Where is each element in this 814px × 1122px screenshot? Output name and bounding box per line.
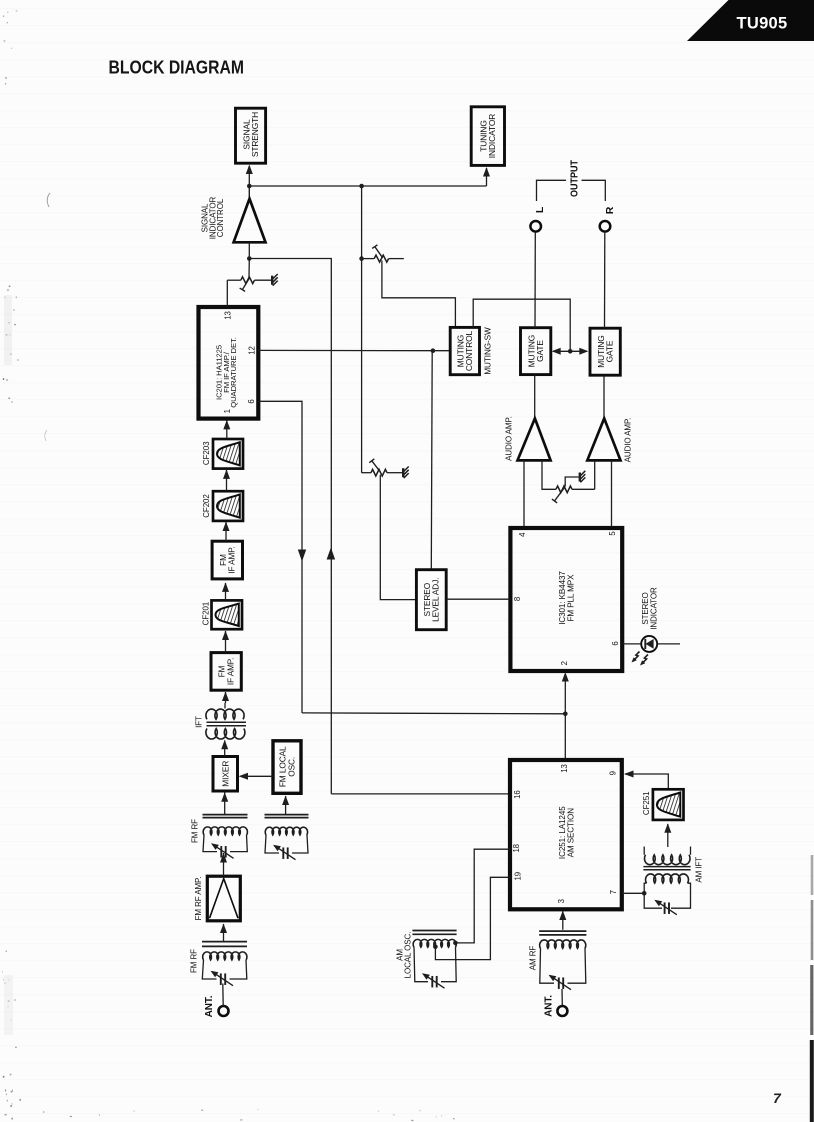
potentiometer audio balance bbox=[542, 460, 595, 503]
wire IC251 pin 7 to AM IFT bbox=[622, 892, 644, 894]
svg-text:9: 9 bbox=[609, 771, 618, 775]
wire/arrow FM IF AMP 1 to CF201 bbox=[222, 631, 229, 653]
IC251 LA1245 AM SECTION block bbox=[510, 760, 622, 909]
wire branch down from tuning line (x361.5) bbox=[361, 186, 363, 473]
wire/arrow FM RF tank to FM RF AMP bbox=[220, 924, 227, 942]
svg-text:OUTPUT: OUTPUT bbox=[570, 160, 581, 197]
wire muting pot wiper to MUTING CONTROL bbox=[382, 261, 456, 328]
wire IC201 pin 6 to AM bus bbox=[258, 401, 302, 713]
node junction between muting gates bbox=[568, 349, 573, 354]
signal strength meter block bbox=[236, 108, 266, 163]
svg-text:ANT.: ANT. bbox=[544, 995, 555, 1017]
wire junction down to level pot bbox=[248, 259, 250, 278]
svg-text:FM RF AMP.: FM RF AMP. bbox=[194, 877, 203, 921]
page number 7 bbox=[773, 1090, 782, 1106]
svg-text:INDICATOR: INDICATOR bbox=[650, 587, 659, 630]
svg-text:12: 12 bbox=[247, 346, 256, 354]
wire/arrows gate control double arrow bbox=[552, 348, 589, 355]
amplifier FM RF AMP. bbox=[194, 876, 240, 921]
title BLOCK DIAGRAM bbox=[109, 57, 245, 78]
antenna terminal ANT. (FM) bbox=[204, 995, 228, 1017]
svg-text:7: 7 bbox=[773, 1090, 782, 1106]
wire/arrow to SIGNAL STRENGTH bbox=[246, 165, 253, 187]
svg-text:AM SECTION: AM SECTION bbox=[567, 808, 576, 858]
svg-text:6: 6 bbox=[247, 399, 256, 403]
node junction AM LO mid tap bbox=[433, 945, 438, 950]
svg-text:13: 13 bbox=[224, 311, 233, 319]
wire ANT to FM RF tank bbox=[222, 984, 224, 1006]
node junction pin7 on AM IFT tank bbox=[642, 891, 647, 896]
svg-text:16: 16 bbox=[513, 790, 522, 798]
svg-text:CF201: CF201 bbox=[202, 601, 211, 625]
FM RF tuned circuit T2 with variable capacitor bbox=[190, 815, 247, 859]
wire L terminal to muting gate L bbox=[534, 232, 536, 327]
terminal R bbox=[600, 206, 616, 231]
wire STEREO LEVEL ADJ to IC301 pin 8 bbox=[446, 598, 510, 600]
muting gate block (L) bbox=[521, 328, 551, 375]
label MUTING-SW bbox=[483, 327, 492, 375]
wire AM bus to IC301 pin2 and IC251 pin13 bbox=[302, 672, 569, 760]
wire MUTING CONTROL to gates bus bbox=[473, 299, 570, 351]
wire AM LO tap to IC251 pin 19 bbox=[435, 877, 509, 959]
node junction AM LO coil end bbox=[453, 941, 458, 946]
ceramic filter CF251 bbox=[642, 789, 683, 820]
output bracket and label bbox=[537, 160, 606, 201]
svg-text:FM RF: FM RF bbox=[189, 949, 198, 973]
amplifier FM IF AMP (1st) bbox=[211, 653, 241, 691]
wire pot to IC201 pin 13 bbox=[226, 280, 228, 307]
mixer block bbox=[213, 757, 238, 792]
ceramic filter CF203 bbox=[202, 439, 243, 469]
AM RF tuned circuit with variable capacitor bbox=[529, 931, 587, 990]
svg-text:TU905: TU905 bbox=[736, 15, 787, 33]
muting control block bbox=[450, 327, 479, 374]
wire signal-control to x331 bus bbox=[249, 259, 331, 794]
left edge scan speckles bbox=[4, 193, 50, 1035]
muting gate block (R) bbox=[590, 328, 620, 375]
svg-text:ANT.: ANT. bbox=[204, 995, 215, 1017]
svg-text:STRENGTH: STRENGTH bbox=[250, 112, 260, 157]
wire/arrow AM IFT to CF251 bbox=[664, 823, 671, 847]
wire IC201 pin 12 to MUTING CONTROL bbox=[258, 349, 450, 351]
svg-text:CF203: CF203 bbox=[202, 441, 211, 465]
wire/arrow CF203 to IC201 pin 1 bbox=[223, 420, 230, 439]
IC301 KB4437 FM PLL MPX block bbox=[510, 528, 622, 671]
node junction below signal strength bbox=[247, 184, 252, 189]
wire stereo pot wiper to STEREO LEVEL ADJ bbox=[380, 475, 416, 600]
amplifier SIGNAL INDICATOR CONTROL bbox=[201, 188, 266, 242]
svg-text:GATE: GATE bbox=[605, 340, 615, 362]
svg-text:1: 1 bbox=[223, 409, 232, 413]
wire muting gate L to audio amp L bbox=[534, 375, 536, 418]
svg-text:13: 13 bbox=[560, 764, 569, 772]
ground for signal level pot bbox=[272, 274, 278, 286]
wire audio amp R to IC301 pin 5 bbox=[611, 460, 613, 527]
wire/arrow FM IF AMP 2 to CF202 bbox=[223, 522, 230, 542]
svg-text:L: L bbox=[534, 206, 546, 213]
wire/arrow AM RF tank to IC251 pin 3 bbox=[559, 911, 566, 930]
ceramic filter CF201 bbox=[202, 600, 242, 629]
wire AM LO end to IC251 pin 18 bbox=[455, 849, 509, 943]
wire/arrow CF201 to FM IF AMP 2 bbox=[222, 582, 229, 600]
right edge scan artifact bbox=[810, 855, 814, 1122]
svg-text:4: 4 bbox=[518, 532, 527, 537]
svg-text:LOCAL OSC.: LOCAL OSC. bbox=[404, 932, 413, 979]
wire/arrow CF202 to CF203 bbox=[223, 469, 230, 491]
node junction on tuning line bbox=[359, 184, 364, 189]
FM local osc tuned circuit with variable capacitor bbox=[265, 815, 309, 860]
svg-text:AM RF: AM RF bbox=[529, 946, 538, 971]
svg-text:7: 7 bbox=[609, 890, 618, 894]
amplifier AUDIO AMP. (R) bbox=[587, 418, 632, 463]
amplifier FM IF AMP (2nd) bbox=[212, 541, 242, 579]
wire/arrow CF251 to IC251 pin 9 bbox=[624, 771, 668, 790]
svg-text:BLOCK DIAGRAM: BLOCK DIAGRAM bbox=[109, 57, 245, 78]
potentiometer signal level with wiper bbox=[227, 277, 271, 292]
transformer IFT bbox=[195, 709, 246, 739]
wire triangle base down bbox=[248, 242, 250, 258]
svg-text:GATE: GATE bbox=[535, 340, 545, 362]
amplifier AUDIO AMP. (L) bbox=[504, 416, 550, 461]
wire x331 bus to IC251 pin 16 bbox=[331, 793, 510, 795]
svg-text:6: 6 bbox=[611, 641, 620, 645]
ground for audio balance pot bbox=[580, 471, 586, 483]
svg-text:IFT: IFT bbox=[195, 716, 204, 728]
ground for stereo pot bbox=[403, 467, 409, 479]
FM local oscillator block bbox=[273, 741, 301, 794]
svg-text:IF AMP.: IF AMP. bbox=[226, 658, 235, 685]
wire/arrow FM RF tank 2 to MIXER bbox=[221, 792, 228, 814]
wire/arrow MIXER to IFT bbox=[221, 740, 228, 757]
svg-text:19: 19 bbox=[513, 872, 522, 880]
transformer AM IFT bbox=[643, 847, 703, 915]
scan noise dots bottom edge bbox=[5, 1089, 455, 1121]
svg-text:FM PLL MPX: FM PLL MPX bbox=[566, 574, 575, 622]
wire/arrow IFT to FM IF AMP 1 bbox=[222, 692, 229, 709]
tuning indicator block bbox=[471, 107, 504, 166]
FM RF tuned circuit T1 with variable capacitor bbox=[189, 942, 247, 986]
node junction below control amp bbox=[247, 256, 252, 261]
arrow up on x331 bus (AM signal path) bbox=[327, 548, 336, 560]
wire junction down to STEREO LEVEL ADJ bbox=[430, 351, 433, 570]
svg-text:AM IFT: AM IFT bbox=[695, 857, 704, 883]
wire signal line to tuning indicator bbox=[249, 185, 486, 187]
svg-text:AUDIO AMP.: AUDIO AMP. bbox=[623, 418, 632, 463]
antenna terminal ANT. (AM) bbox=[544, 995, 568, 1017]
wire audio amp L to IC301 pin 4 bbox=[523, 460, 525, 527]
potentiometer muting level bbox=[364, 245, 404, 262]
terminal L bbox=[530, 206, 546, 231]
svg-text:CF202: CF202 bbox=[202, 494, 211, 518]
svg-text:18: 18 bbox=[512, 844, 521, 852]
svg-text:CF251: CF251 bbox=[642, 791, 651, 815]
svg-text:CONTROL: CONTROL bbox=[216, 198, 225, 237]
wire/arrow up to TUNING INDICATOR bbox=[483, 167, 490, 186]
svg-text:AUDIO AMP.: AUDIO AMP. bbox=[504, 416, 513, 461]
scan noise dots left edge bbox=[2, 10, 17, 1077]
wire/arrow FM LO tank to FM LOCAL OSC box bbox=[282, 796, 289, 815]
svg-text:8: 8 bbox=[513, 597, 522, 601]
wire/arrow FM LOCAL OSC to MIXER bbox=[239, 773, 273, 780]
stereo pot tuned from x361 bus bbox=[362, 459, 402, 476]
svg-text:2: 2 bbox=[560, 661, 569, 665]
svg-text:QUADRATURE DET.: QUADRATURE DET. bbox=[229, 337, 238, 408]
node junction pin12/stereo branch bbox=[431, 348, 436, 353]
svg-text:INDICATOR: INDICATOR bbox=[487, 114, 497, 158]
IC201 HA11225 FM IF AMP / QUADRATURE DET block bbox=[199, 307, 259, 419]
svg-text:MIXER: MIXER bbox=[221, 761, 231, 787]
svg-text:FM RF: FM RF bbox=[190, 819, 199, 843]
wire AM RF to ANT bbox=[561, 989, 563, 1006]
LED stereo indicator bbox=[622, 587, 680, 665]
svg-text:MUTING-SW: MUTING-SW bbox=[483, 327, 492, 375]
svg-text:OSC.: OSC. bbox=[286, 757, 296, 777]
svg-text:3: 3 bbox=[557, 899, 566, 903]
node junction pin2/pin13 bbox=[563, 712, 568, 717]
ceramic filter CF202 bbox=[202, 491, 243, 521]
stereo level adjust block bbox=[416, 570, 446, 630]
svg-text:R: R bbox=[604, 206, 616, 214]
svg-text:IF AMP.: IF AMP. bbox=[228, 546, 237, 573]
node junction at muting pot bbox=[359, 256, 364, 261]
AM local oscillator tuned circuit bbox=[395, 931, 456, 989]
svg-text:LEVEL ADJ.: LEVEL ADJ. bbox=[431, 578, 441, 622]
arrow down on pin6 bus bbox=[298, 550, 306, 562]
wire R terminal to muting gate R bbox=[604, 232, 606, 328]
svg-text:CONTROL: CONTROL bbox=[464, 330, 474, 371]
wire muting gate R to audio amp R bbox=[603, 375, 605, 418]
TU905 model label banner bbox=[687, 0, 814, 41]
wire/arrow FM RF AMP to FM RF tank 2 bbox=[220, 853, 227, 876]
